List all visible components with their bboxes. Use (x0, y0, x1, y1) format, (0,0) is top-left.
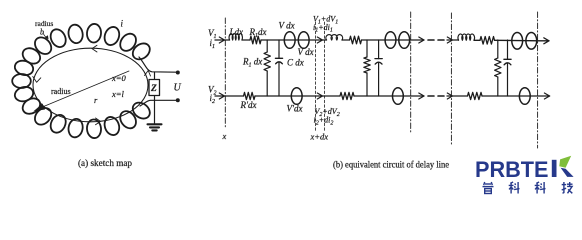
svg-text:V′dx: V′dx (287, 104, 303, 114)
svg-text:b: b (40, 28, 44, 37)
svg-text:x: x (222, 131, 227, 141)
svg-text:C dx: C dx (287, 58, 304, 68)
svg-text:R′dx: R′dx (240, 100, 257, 110)
svg-text:x+dx: x+dx (310, 132, 329, 142)
svg-text:Z: Z (150, 84, 157, 94)
svg-text:(a) sketch map: (a) sketch map (78, 158, 132, 169)
svg-text:Ldx: Ldx (229, 27, 244, 37)
svg-text:V dx: V dx (279, 21, 295, 31)
svg-text:radius: radius (51, 87, 71, 96)
svg-text:V dx: V dx (298, 47, 314, 57)
svg-text:x=l: x=l (111, 89, 125, 99)
svg-text:U: U (174, 83, 182, 94)
svg-text:PRBTE: PRBTE (475, 157, 549, 182)
svg-text:x=0: x=0 (111, 73, 127, 83)
svg-text:radius: radius (35, 19, 53, 28)
svg-text:(b) equivalent circuit of dela: (b) equivalent circuit of delay line (333, 160, 449, 171)
